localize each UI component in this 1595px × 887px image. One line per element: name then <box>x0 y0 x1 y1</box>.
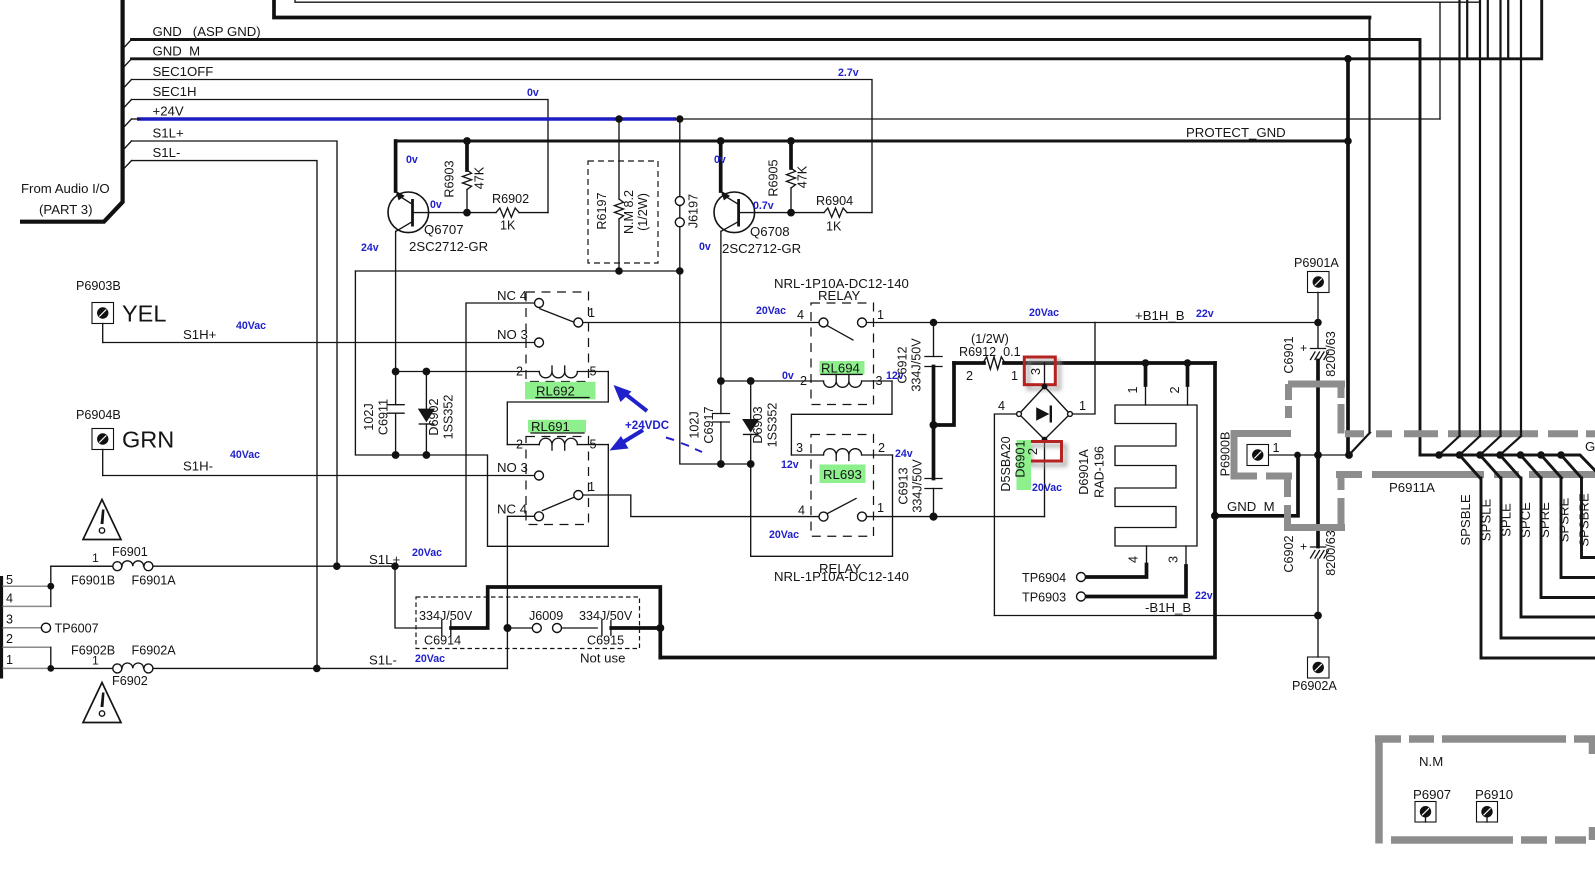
wire: pins 5+4 join to F6901 <box>51 566 113 606</box>
svg-text:RAD-196: RAD-196 <box>1093 446 1107 498</box>
label RL692 (green highlight) <box>525 382 596 400</box>
wire SEC1H: to x=548 then down to R6902 <box>132 100 549 213</box>
wire: bus vertical x=1370 from top block <box>1368 18 1370 433</box>
svg-text:5: 5 <box>590 365 597 379</box>
wire: bridge pin2 down to RL693 common <box>1044 440 1046 517</box>
svg-text:R6903: R6903 <box>443 160 457 197</box>
svg-text:2: 2 <box>800 374 807 388</box>
svg-text:0v: 0v <box>782 370 794 382</box>
svg-text:2.7v: 2.7v <box>838 67 859 79</box>
transistor Q6707 2SC2712-GR <box>388 192 429 233</box>
svg-text:C6911: C6911 <box>377 399 391 435</box>
svg-text:1: 1 <box>588 480 595 494</box>
svg-text:NC 4: NC 4 <box>497 502 527 517</box>
svg-text:F6901A: F6901A <box>132 574 177 588</box>
wire: RL692 common to RL694 contact 4 <box>583 322 818 324</box>
svg-text:From Audio I/O: From Audio I/O <box>21 181 110 196</box>
svg-text:2: 2 <box>516 365 523 379</box>
wire: Q6707 base to R6902 <box>413 212 497 214</box>
wire S1L+ net (fuse F6901 to RL692 NC riser) <box>51 565 113 567</box>
svg-text:2: 2 <box>6 632 13 646</box>
resistor R6904 1K <box>824 208 847 217</box>
connector pin 5 <box>3 585 51 587</box>
junction dots <box>1435 451 1443 459</box>
wire: speaker line x=1581.5 <box>1582 478 1595 558</box>
svg-text:5: 5 <box>590 438 597 452</box>
svg-text:RL692: RL692 <box>536 384 575 399</box>
svg-text:R6912 0.1: R6912 0.1 <box>959 345 1021 359</box>
svg-text:1K: 1K <box>500 219 516 233</box>
svg-text:D5SBA20: D5SBA20 <box>999 436 1013 491</box>
svg-text:0v: 0v <box>699 241 711 253</box>
pin 4 of D6901A / test point TP6904 <box>1146 546 1148 565</box>
wire: speaker line x=1481 <box>1481 478 1595 658</box>
resistor R6902 1K <box>496 208 519 217</box>
connector pin 3 <box>3 627 42 629</box>
svg-text:1: 1 <box>6 653 13 667</box>
wire: bus stub from top edge x=1487.8 <box>1487 0 1489 59</box>
svg-text:F6901B: F6901B <box>71 574 115 588</box>
wire: RL693 common to bridge pin 2 <box>867 516 1045 518</box>
wire: pins 2+1 join to F6902 <box>50 647 52 668</box>
svg-text:1: 1 <box>92 551 99 565</box>
svg-text:R6904: R6904 <box>816 194 853 208</box>
svg-text:2: 2 <box>878 441 885 455</box>
svg-text:C6913: C6913 <box>897 467 911 504</box>
svg-text:GND M: GND M <box>153 43 201 58</box>
svg-text:20Vac: 20Vac <box>1029 307 1059 319</box>
wire S1L- net (fuse F6902 to RL691 NC riser) <box>51 667 113 669</box>
svg-text:RL694: RL694 <box>821 361 860 376</box>
svg-text:1: 1 <box>588 306 595 320</box>
connector pin 4 <box>3 605 51 607</box>
wire GND_M spur <box>1215 455 1298 516</box>
svg-text:334J/50V: 334J/50V <box>579 609 633 623</box>
svg-text:1: 1 <box>1079 399 1086 413</box>
svg-text:0v: 0v <box>406 154 418 166</box>
svg-text:TP6903: TP6903 <box>1022 591 1066 605</box>
relay RL692 common contact 1 <box>574 318 583 327</box>
wire stub: GND&#160;&#160;&#160;(ASP GND) harness entry <box>124 40 132 49</box>
jumper J6197 <box>679 119 681 196</box>
svg-text:NC 4: NC 4 <box>497 288 527 303</box>
transistor Q6708 2SC2712-GR <box>714 192 755 233</box>
svg-text:GRN: GRN <box>122 427 174 453</box>
svg-text:RELAY: RELAY <box>818 288 860 303</box>
wire GND_M vertical x=1348 down to connector row <box>1346 59 1350 455</box>
wire: RL694 common to +B1H_B net <box>867 322 1095 324</box>
node PROTECT_GND / GND_M vertical <box>1344 137 1352 145</box>
svg-text:SPCE: SPCE <box>1518 502 1533 538</box>
fuse F6902 <box>113 664 122 673</box>
wire S1H+ <box>103 342 535 344</box>
svg-text:D6903: D6903 <box>751 406 765 443</box>
svg-text:22v: 22v <box>1195 590 1213 602</box>
wire: C6901 negative to GND_M row <box>1316 361 1320 456</box>
svg-text:+24VDC: +24VDC <box>625 419 670 432</box>
svg-text:40Vac: 40Vac <box>236 320 266 332</box>
svg-text:1: 1 <box>877 501 884 515</box>
svg-text:102J: 102J <box>362 403 376 430</box>
wire: P6900B pin1 row <box>1269 454 1349 456</box>
svg-text:+24V: +24V <box>153 104 184 119</box>
svg-text:2: 2 <box>1168 386 1182 393</box>
capacitor C6901 8200/63 (electrolytic) <box>1317 323 1319 349</box>
capacitor C6902 8200/63 (electrolytic) <box>1316 455 1320 547</box>
svg-text:0v: 0v <box>714 154 726 166</box>
dashed box around C6914/J6009/C6915 <box>416 597 640 649</box>
boundary: From Audio I/O (PART 3) <box>20 0 123 222</box>
svg-text:S1H+: S1H+ <box>183 327 217 342</box>
wire: speaker line x=1561 <box>1561 478 1595 578</box>
svg-text:NO 3: NO 3 <box>497 460 528 475</box>
svg-text:-B1H_B: -B1H_B <box>1145 600 1191 615</box>
wire +24VDC rail y=271 <box>355 270 679 272</box>
gray dashed N.M board box <box>1375 735 1401 743</box>
wire: C6917/D6903 return to +24VDC rail <box>680 271 751 464</box>
svg-text:4: 4 <box>6 592 13 606</box>
svg-text:0.7v: 0.7v <box>753 200 774 212</box>
line filter D6901A RAD-196 (comb core) <box>1115 405 1197 546</box>
wire +24V blue heavy segment <box>137 117 676 121</box>
wire: thick bypass path C6914 to C6915 <box>451 587 660 658</box>
wire: thin +24V return along top edge <box>295 0 1479 2</box>
svg-text:S1L-: S1L- <box>369 653 397 668</box>
wire stub: +24V harness entry <box>124 119 132 128</box>
svg-text:D6901: D6901 <box>1014 440 1028 477</box>
svg-text:D6901A: D6901A <box>1077 449 1091 495</box>
svg-text:47K: 47K <box>473 166 487 189</box>
svg-text:3: 3 <box>1029 368 1043 375</box>
svg-text:SEC1H: SEC1H <box>153 84 197 99</box>
svg-text:3: 3 <box>876 374 883 388</box>
svg-text:SPSBLE: SPSBLE <box>1458 494 1473 546</box>
svg-text:1: 1 <box>1011 369 1018 383</box>
svg-text:P6910: P6910 <box>1475 787 1513 802</box>
svg-text:R6902: R6902 <box>492 192 529 206</box>
wire stub: SEC1H harness entry <box>124 100 132 109</box>
svg-text:47K: 47K <box>796 165 810 188</box>
svg-text:3: 3 <box>796 441 803 455</box>
svg-text:J6197: J6197 <box>687 194 701 228</box>
svg-text:1SS352: 1SS352 <box>441 395 455 440</box>
wire +24V thin continuation to x=1440 <box>676 118 1440 120</box>
capacitor C6913 334J/50V <box>932 425 936 479</box>
relay RL692 contact NC 4 <box>535 299 544 308</box>
svg-text:20Vac: 20Vac <box>756 305 786 317</box>
resistor R6912 0.1 (1/2W) in thick AC line <box>954 361 984 365</box>
svg-text:D6902: D6902 <box>427 398 441 435</box>
resistor R6903 47K <box>465 141 469 170</box>
relay RL692 contact NO 3 (S1H+) <box>535 338 544 347</box>
svg-text:C6914: C6914 <box>424 634 461 648</box>
svg-text:GND (ASP GND): GND (ASP GND) <box>153 24 261 39</box>
svg-text:S1H-: S1H- <box>183 459 213 474</box>
svg-text:P6904B: P6904B <box>76 408 121 422</box>
connector pad P6902A <box>1317 616 1319 658</box>
warning triangle (upper) <box>83 500 121 540</box>
svg-text:Q6708: Q6708 <box>750 224 790 239</box>
wire GND (ASP GND): y=39.5 to right bus <box>132 40 1421 456</box>
svg-text:N.M: N.M <box>1419 754 1443 769</box>
capacitor C6915 334J/50V (Not use) <box>601 621 603 636</box>
svg-text:4: 4 <box>1127 556 1141 563</box>
fan diagonals out of junction row <box>1460 455 1481 478</box>
connector pad P6900B <box>1247 445 1269 466</box>
gray board boundary around P6900B <box>1288 381 1345 388</box>
wire: bridge pin4 (-) down to -B1H_B <box>994 414 1016 616</box>
svg-text:N.M 8.2: N.M 8.2 <box>622 190 636 234</box>
wire: bus vertical x=1500.5 <box>1499 0 1501 436</box>
relay RL694 common contact 1 <box>858 318 867 327</box>
svg-text:F6901: F6901 <box>112 545 148 559</box>
svg-text:4: 4 <box>797 308 804 322</box>
node +24V / R6197 <box>615 115 622 122</box>
svg-text:20Vac: 20Vac <box>412 547 442 559</box>
wire: RL692 pin5 Z-link to RL691 pin2 <box>507 372 608 445</box>
wire: bus vertical x=1480 <box>1479 0 1481 436</box>
wire: thick bus from upper schematic block <box>274 0 1370 18</box>
svg-text:TP6904: TP6904 <box>1022 571 1066 585</box>
fuse F6901 <box>113 562 122 571</box>
svg-text:RL693: RL693 <box>823 467 862 482</box>
capacitor C6912 334J/50V <box>933 323 935 357</box>
wire stub: GND&#160;&#160;M harness entry <box>124 59 132 68</box>
relay RL693 contact blade <box>828 499 857 514</box>
node +24V / J6197 <box>676 115 683 122</box>
gray dashed bus line P6911A upper edge y=433.8 <box>1345 430 1364 437</box>
svg-text:Not use: Not use <box>580 651 625 666</box>
relay RL691 contact blade <box>543 498 574 511</box>
wire: +24V riser x=1440 <box>1439 2 1441 119</box>
wire: speaker line x=1541 <box>1541 478 1595 598</box>
wire: Q6708 base to R6904 <box>739 212 824 214</box>
svg-text:SEC1OFF: SEC1OFF <box>153 64 214 79</box>
svg-text:C6915: C6915 <box>587 634 624 648</box>
svg-text:4: 4 <box>998 399 1005 413</box>
svg-text:S1L+: S1L+ <box>153 126 184 141</box>
wire +B1H_B <box>1095 322 1318 324</box>
svg-text:P6907: P6907 <box>1413 787 1451 802</box>
svg-text:+B1H_B: +B1H_B <box>1135 308 1185 323</box>
svg-text:20Vac: 20Vac <box>1032 482 1062 494</box>
svg-text:0v: 0v <box>430 199 442 211</box>
svg-text:+: + <box>1300 341 1307 355</box>
svg-text:C6917: C6917 <box>702 406 716 443</box>
svg-text:2: 2 <box>1026 448 1040 455</box>
svg-text:8200/63: 8200/63 <box>1324 530 1338 576</box>
wire: Q6707 collector down to RL692 coil <box>395 231 397 371</box>
wire: thick AC return x=1215 down / y=657.5 left <box>660 363 1215 658</box>
warning triangle (lower) <box>83 683 121 723</box>
wire: speaker line x=1521 <box>1521 478 1595 617</box>
wire: bus stub from top edge x=1467.2 <box>1466 0 1468 59</box>
wire: return continues to RL691 pin5 U-link <box>426 445 608 547</box>
svg-text:SPSLE: SPSLE <box>1479 499 1494 542</box>
test point TP6007 <box>41 623 50 632</box>
svg-text:(1/2W): (1/2W) <box>636 193 650 231</box>
relay RL691 contact NC 4 <box>535 512 544 521</box>
wire SEC1OFF: to x=872 then down to R6904 <box>132 80 873 213</box>
svg-text:(PART 3): (PART 3) <box>39 202 93 217</box>
svg-text:334J/50V: 334J/50V <box>419 609 473 623</box>
node: GND_M junction at x=1348 <box>1344 55 1352 63</box>
label D6901 (green highlight) <box>1017 440 1032 490</box>
svg-text:2SC2712-GR: 2SC2712-GR <box>409 239 488 254</box>
pin 2 of D6901A <box>1186 363 1190 385</box>
svg-text:S1L-: S1L- <box>153 145 181 160</box>
svg-text:1: 1 <box>1273 441 1280 455</box>
svg-text:102J: 102J <box>688 411 702 438</box>
wire: RL691 NC down to S1L- net <box>507 516 534 668</box>
svg-text:C6902: C6902 <box>1282 535 1296 572</box>
relay RL694 coil (pins 2-3) <box>721 380 824 382</box>
svg-text:NO 3: NO 3 <box>497 327 528 342</box>
diode D6903 1SS352 <box>750 381 752 419</box>
wire S1L- from label, corner down at x=317 <box>132 161 318 669</box>
svg-text:+: + <box>1300 540 1307 554</box>
svg-text:P6901A: P6901A <box>1294 256 1339 270</box>
svg-text:22v: 22v <box>1196 308 1214 320</box>
wire: diagonal to bus vertical x=1370 <box>1349 433 1370 456</box>
wire: RL691 common jog to RL693 contact 4 <box>583 495 818 517</box>
svg-text:20Vac: 20Vac <box>415 653 445 665</box>
wire -B1H_B <box>994 615 1318 617</box>
svg-text:5: 5 <box>6 573 13 587</box>
svg-text:2SC2712-GR: 2SC2712-GR <box>722 241 801 256</box>
svg-text:J6009: J6009 <box>529 609 563 623</box>
bridge rectifier D6901 D5SBA20 <box>1019 387 1070 440</box>
capacitor C6914 334J/50V <box>441 621 443 636</box>
relay RL693 dashed outline <box>811 435 874 537</box>
connector body edge (left) <box>0 576 3 679</box>
svg-text:12v: 12v <box>781 459 799 471</box>
svg-text:F6902: F6902 <box>112 674 148 688</box>
connector pin 1 <box>3 667 51 669</box>
svg-text:R6197: R6197 <box>595 192 609 229</box>
svg-text:P6900B: P6900B <box>1219 432 1233 477</box>
relay RL693 contact 4 <box>819 512 828 521</box>
jumper J6009 <box>504 624 512 632</box>
relay RL691 dashed outline <box>526 437 589 525</box>
svg-text:SPLE: SPLE <box>1499 503 1514 537</box>
svg-text:F6902A: F6902A <box>132 644 177 658</box>
svg-text:YEL: YEL <box>122 301 166 327</box>
relay RL693 common contact 1 <box>858 512 867 521</box>
svg-text:P6903B: P6903B <box>76 279 121 293</box>
fan diagonals into junction row <box>1439 436 1460 455</box>
wire: thick AC net C6912 to R6912 corner <box>932 367 936 426</box>
svg-text:P6902A: P6902A <box>1292 679 1337 693</box>
svg-text:S1L+: S1L+ <box>369 552 400 567</box>
relay RL693 coil (pins 3-2) <box>791 454 823 456</box>
svg-text:P6911A: P6911A <box>1389 480 1435 495</box>
svg-text:1K: 1K <box>826 220 842 234</box>
relay RL694 contact blade <box>828 326 854 340</box>
svg-text:0v: 0v <box>527 87 539 99</box>
svg-text:24v: 24v <box>361 242 379 254</box>
wire GND_M: y=58.8 across to right, corner down at x=1542 <box>132 1 1542 59</box>
wire S1L+ from label, corner down at x=337 <box>132 141 338 566</box>
capacitor C6911 102J <box>395 372 397 405</box>
wire: bus vertical x=1459.5 <box>1458 0 1460 436</box>
connector pin 2 <box>3 646 51 648</box>
wire stub: SEC1OFF harness entry <box>124 80 132 89</box>
svg-text:24v: 24v <box>895 448 913 460</box>
wire: junction row y=455 <box>1420 455 1595 471</box>
svg-text:NRL-1P10A-DC12-140: NRL-1P10A-DC12-140 <box>774 569 909 584</box>
svg-text:334J/50V: 334J/50V <box>911 459 925 513</box>
wire stub: S1L+ harness entry <box>124 141 132 150</box>
svg-text:Q6707: Q6707 <box>424 222 464 237</box>
label RL691 (green highlight) <box>528 420 586 433</box>
wire: Q6708 collector down to RL694 coil <box>720 231 722 381</box>
label RL693 (green highlight) <box>820 465 866 484</box>
svg-text:SPSBRE: SPSBRE <box>1577 493 1592 547</box>
relay RL691 coil (pins 2-5) <box>507 444 539 446</box>
capacitor C6917 102J <box>720 381 722 414</box>
wire: bus stub from top edge x=1508.2 <box>1507 0 1509 59</box>
svg-text:SPRE: SPRE <box>1537 502 1552 538</box>
svg-text:1SS352: 1SS352 <box>766 403 780 448</box>
wire stub: S1L- harness entry <box>124 161 132 170</box>
wire PROTECT_GND rail y=141 <box>396 140 1348 143</box>
svg-text:40Vac: 40Vac <box>230 449 260 461</box>
svg-text:3: 3 <box>1167 556 1181 563</box>
wire: S1L+ up to RL692 NC contact <box>466 303 534 566</box>
diode D6902 1SS352 <box>425 372 427 409</box>
wire: speaker line x=1501 <box>1501 478 1595 638</box>
wire: Q6708 emitter thick stub <box>719 141 723 191</box>
svg-text:TP6007: TP6007 <box>55 622 99 636</box>
wire: bus vertical x=1521 <box>1520 0 1522 436</box>
svg-text:RL691: RL691 <box>531 419 570 434</box>
svg-text:4: 4 <box>798 504 805 518</box>
svg-text:2: 2 <box>516 438 523 452</box>
wire: RL693 pin2 U-link to +24VDC return <box>751 455 893 556</box>
label RL694 (green highlight) <box>820 361 865 375</box>
relay RL694 contact 4 <box>819 318 828 327</box>
relay RL691 common contact 1 <box>574 491 583 500</box>
svg-text:(1/2W): (1/2W) <box>971 332 1009 346</box>
wire: RL694 pin3 Z-link to RL693 pin3 <box>791 381 892 455</box>
svg-text:G: G <box>1585 439 1595 454</box>
wire: bridge top lead <box>1044 363 1046 387</box>
svg-text:1: 1 <box>877 308 884 322</box>
svg-text:2: 2 <box>966 369 973 383</box>
svg-text:334J/50V: 334J/50V <box>910 338 924 392</box>
svg-text:R6905: R6905 <box>767 159 781 196</box>
svg-text:1: 1 <box>1126 386 1140 393</box>
wire: C6911/D6902 return to +24VDC rail <box>355 271 426 455</box>
svg-text:1: 1 <box>92 654 99 668</box>
wire: bridge pin1 (+) up to +B1H_B <box>1072 323 1095 415</box>
svg-text:8200/63: 8200/63 <box>1324 331 1338 377</box>
svg-text:PROTECT_GND: PROTECT_GND <box>1186 125 1286 140</box>
relay RL691 contact NO 3 (S1H-) <box>535 471 544 480</box>
wire: S1L+ branch down to C6914 <box>395 566 442 628</box>
red pin box 3 (with shadow) <box>1028 361 1059 389</box>
relay RL692 dashed outline <box>526 292 589 382</box>
red pin box 2 (with shadow) <box>1031 446 1066 466</box>
wire S1H- <box>103 475 535 477</box>
svg-text:GND M: GND M <box>1227 499 1275 514</box>
wire: Q6707 emitter thick stub <box>394 141 398 191</box>
relay RL692 contact blade <box>540 309 573 322</box>
relay RL692 coil (pins 2-5) <box>396 371 540 373</box>
pin 3 of D6901A / test point TP6903 <box>1185 546 1187 566</box>
svg-text:C6901: C6901 <box>1282 336 1296 373</box>
